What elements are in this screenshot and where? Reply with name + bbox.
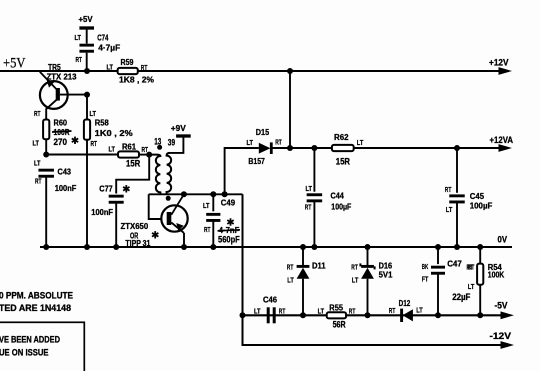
svg-text:+5V: +5V <box>3 55 26 71</box>
svg-text:13: 13 <box>154 137 161 147</box>
svg-text:C77: C77 <box>99 183 113 193</box>
junction top rail / +12VA feed <box>287 68 293 74</box>
svg-text:+9V: +9V <box>171 123 186 133</box>
junction R61 winding C77 <box>146 152 152 158</box>
inductor left feedback winding <box>149 155 160 195</box>
resistor R62 <box>332 145 354 151</box>
svg-text:100nF: 100nF <box>55 183 77 193</box>
resistor R61 <box>118 151 139 157</box>
svg-text:4·7µF: 4·7µF <box>98 42 120 52</box>
phase dot pin 13 <box>157 145 162 150</box>
junction base node <box>84 92 90 98</box>
junction C49 0V <box>210 244 216 250</box>
diode D11 <box>302 247 304 265</box>
wire vertical +12V to +12VA node <box>289 71 291 148</box>
svg-text:LT: LT <box>352 276 359 285</box>
svg-text:RT: RT <box>141 63 148 72</box>
resistor R55 <box>327 312 346 318</box>
svg-text:RT: RT <box>349 307 356 316</box>
junction R54 -5V <box>477 312 483 318</box>
svg-text:LT: LT <box>416 305 423 314</box>
svg-text:FT: FT <box>422 274 429 283</box>
transistor TR5 emitter lead <box>40 72 57 90</box>
wire C77 feed from node <box>116 155 149 194</box>
svg-text:R61: R61 <box>122 142 136 152</box>
svg-text:LT: LT <box>33 139 40 148</box>
transistor TR5 base bar <box>56 88 60 101</box>
transistor TR5 base lead <box>60 94 87 96</box>
svg-text:100µF: 100µF <box>470 201 493 211</box>
svg-text:LT: LT <box>446 205 453 214</box>
svg-text:R62: R62 <box>334 132 349 142</box>
junction collector node <box>181 191 187 197</box>
junction R54 0V <box>477 244 483 250</box>
svg-text:RT: RT <box>204 225 211 234</box>
svg-text:D12: D12 <box>399 298 411 308</box>
transistor Q2 collector lead <box>171 194 184 215</box>
junction top rail / C74-base column <box>84 68 90 74</box>
transistor TR5 emitter arrow PNP <box>46 79 54 88</box>
svg-text:VE BEEN ADDED: VE BEEN ADDED <box>0 334 60 344</box>
svg-text:LT: LT <box>34 159 41 168</box>
svg-text:56R: 56R <box>333 319 347 329</box>
transistor Q2 circle <box>161 205 187 231</box>
svg-text:LT: LT <box>75 33 82 42</box>
junction +12VA / C44 <box>311 145 317 151</box>
wire +12VA rail <box>272 147 500 149</box>
svg-text:RT: RT <box>34 109 41 118</box>
svg-text:LT: LT <box>306 184 313 193</box>
capacitor C47 <box>437 247 439 264</box>
svg-text:100µF: 100µF <box>331 202 351 212</box>
wire oscillator node line <box>149 193 243 195</box>
svg-text:560pF: 560pF <box>218 235 240 245</box>
svg-text:BK: BK <box>422 262 429 271</box>
junction +12VA / vertical feed <box>287 145 293 151</box>
junction D11 0V <box>300 244 306 250</box>
svg-text:RT: RT <box>445 185 452 194</box>
svg-text:C43: C43 <box>58 166 72 176</box>
junction C49 top <box>210 191 216 197</box>
-5V arrowhead <box>501 311 515 319</box>
junction +12VA / C45 <box>454 145 460 151</box>
transistor Q2 emitter arrow NPN <box>176 223 183 231</box>
asterisk C49 <box>230 218 232 225</box>
transistor TR5 collector lead <box>46 100 56 119</box>
svg-text:RT: RT <box>287 263 294 272</box>
junction D16 0V <box>365 244 371 250</box>
svg-text:RT: RT <box>279 307 286 316</box>
junction C47 -5V <box>435 312 441 318</box>
svg-text:+5V: +5V <box>79 14 93 24</box>
svg-text:LT: LT <box>468 282 475 291</box>
diode D12 <box>400 309 403 322</box>
svg-text:1K8 , 2%: 1K8 , 2% <box>119 75 154 85</box>
-12V arrowhead <box>501 341 515 349</box>
svg-text:-12V: -12V <box>490 331 512 341</box>
svg-text:RT: RT <box>275 138 282 147</box>
svg-text:1K0 , 2%: 1K0 , 2% <box>95 128 133 138</box>
junction C77 0V <box>113 244 119 250</box>
wire R60-C43-R61 node <box>46 154 118 156</box>
junction C43 0V <box>43 244 49 250</box>
diode D15 <box>259 143 271 154</box>
wire 0V rail <box>40 246 512 248</box>
svg-text:R58: R58 <box>95 117 109 127</box>
svg-text:C46: C46 <box>263 295 277 305</box>
svg-text:100K: 100K <box>488 270 505 280</box>
transistor Q2 base bar <box>167 212 172 225</box>
svg-text:LT: LT <box>357 138 364 147</box>
capacitor C44 <box>313 148 315 192</box>
svg-text:UE ON ISSUE: UE ON ISSUE <box>0 348 49 358</box>
svg-text:C47: C47 <box>447 259 462 269</box>
asterisk Q2 <box>154 231 156 238</box>
resistor R58 with through lead <box>86 95 88 120</box>
junction C45 0V <box>454 244 460 250</box>
svg-text:+12V: +12V <box>489 57 509 67</box>
capacitor C46 <box>267 307 270 323</box>
svg-text:22µF: 22µF <box>452 292 471 302</box>
inductor right primary winding <box>167 153 172 194</box>
+12V arrowhead <box>499 67 513 75</box>
junction C47 0V <box>435 244 441 250</box>
svg-text:RT: RT <box>35 177 42 186</box>
svg-text:RT: RT <box>76 55 83 64</box>
svg-text:0V: 0V <box>498 235 508 245</box>
resistor R59 <box>118 68 138 74</box>
svg-text:C49: C49 <box>221 198 235 208</box>
svg-text:RT: RT <box>305 202 312 211</box>
svg-text:100nF: 100nF <box>91 207 113 217</box>
svg-text:+12VA: +12VA <box>490 135 514 145</box>
wire base feed <box>149 194 162 219</box>
capacitor C74 <box>86 28 88 44</box>
junction R58 0V <box>84 244 90 250</box>
transistor TR5 circle <box>40 81 68 109</box>
capacitor C43 <box>38 169 54 172</box>
svg-text:RT: RT <box>351 263 358 272</box>
junction C44 0V <box>311 244 317 250</box>
svg-text:RT: RT <box>468 263 475 272</box>
junction R60 C43 <box>43 152 49 158</box>
svg-text:ZTX 213: ZTX 213 <box>47 73 77 82</box>
svg-text:RT: RT <box>389 306 396 315</box>
wire +5V / +12V top rail <box>0 70 500 72</box>
junction D15 anode node <box>222 191 228 197</box>
wire D15 anode feed <box>225 148 259 194</box>
phase dot bottom <box>166 196 171 201</box>
svg-text:LT: LT <box>254 307 261 316</box>
svg-text:LT: LT <box>109 144 116 153</box>
svg-text:TIPP 31: TIPP 31 <box>125 238 150 248</box>
svg-text:B157: B157 <box>248 156 265 166</box>
capacitor C49 <box>212 194 214 211</box>
junction D11 -5V <box>300 312 306 318</box>
svg-text:ZTX650: ZTX650 <box>121 221 149 231</box>
svg-text:15R: 15R <box>126 159 141 169</box>
wire -12V feed vertical and line <box>243 194 503 345</box>
svg-text:C74: C74 <box>97 33 108 43</box>
asterisk C77 <box>125 185 127 192</box>
wire +9V to primary <box>168 136 183 153</box>
svg-text:R59: R59 <box>121 57 134 67</box>
svg-text:D15: D15 <box>256 127 269 137</box>
svg-text:5V1: 5V1 <box>379 269 393 279</box>
transistor Q2 emitter lead <box>171 223 184 234</box>
svg-text:15R: 15R <box>336 157 351 167</box>
svg-text:LT: LT <box>287 276 294 285</box>
svg-text:LT: LT <box>318 307 325 316</box>
svg-text:LT: LT <box>203 201 210 210</box>
svg-text:270: 270 <box>54 137 68 147</box>
capacitor C45 <box>456 148 458 193</box>
diode D16 <box>367 247 369 265</box>
junction D16 -5V <box>365 312 371 318</box>
resistor R54 <box>479 247 481 264</box>
junction -5V tap <box>240 312 246 318</box>
svg-text:-5V: -5V <box>495 300 508 310</box>
svg-text:R55: R55 <box>329 302 343 312</box>
wire R61 to winding top <box>139 154 151 156</box>
svg-text:LT: LT <box>107 63 114 72</box>
svg-text:D11: D11 <box>312 261 326 271</box>
junction Q2 emitter 0V <box>181 244 187 250</box>
svg-text:0 PPM. ABSOLUTE: 0 PPM. ABSOLUTE <box>0 290 73 300</box>
svg-text:C44: C44 <box>331 190 344 200</box>
svg-text:39: 39 <box>168 137 175 147</box>
svg-text:TED ARE 1N4148: TED ARE 1N4148 <box>0 303 71 313</box>
capacitor C77 <box>109 195 124 198</box>
wire -5V line <box>243 314 503 316</box>
svg-text:TR5: TR5 <box>48 62 61 72</box>
svg-text:LT: LT <box>247 138 254 147</box>
svg-text:RT: RT <box>91 139 98 148</box>
resistor R60 <box>45 118 47 121</box>
note box <box>0 322 84 371</box>
+12VA arrowhead <box>499 144 513 152</box>
asterisk R60 <box>74 137 76 144</box>
